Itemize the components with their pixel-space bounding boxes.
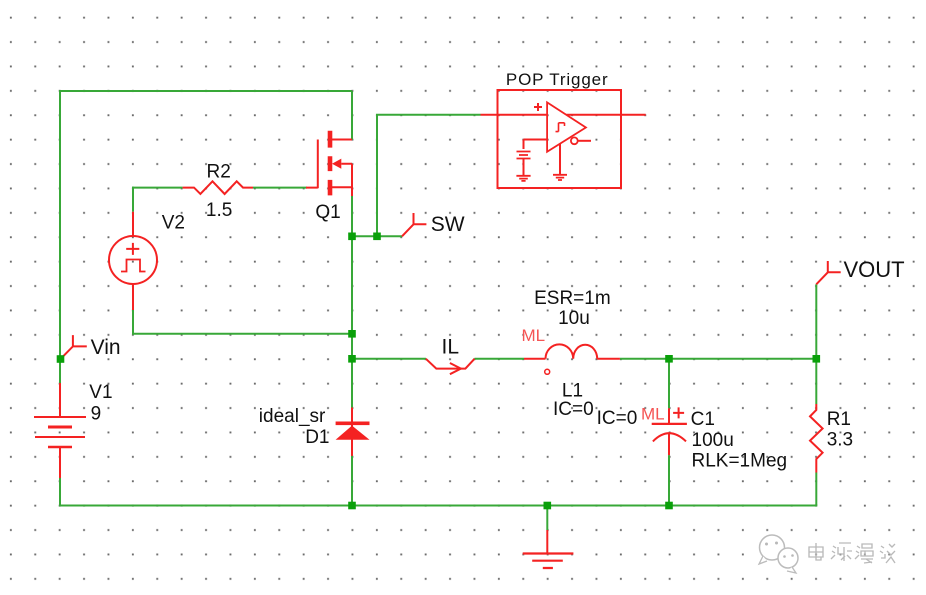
watermark logo bubbles: [760, 535, 785, 560]
wire IL row segment 3: [620, 358, 816, 360]
wire R1 column upper: [815, 284, 817, 404]
battery V1: [34, 383, 86, 478]
svg-text:9: 9: [91, 404, 102, 425]
svg-text:ESR=1m: ESR=1m: [534, 288, 611, 309]
node C1 bottom junction: [665, 502, 673, 510]
node C1 top junction: [665, 355, 673, 363]
wire left vertical upper: [59, 90, 61, 383]
node ground junction: [544, 502, 552, 510]
svg-text:POP Trigger: POP Trigger: [506, 70, 609, 89]
wire C1 column upper: [668, 359, 670, 409]
flag SW: [402, 213, 426, 236]
node SW junction left: [348, 233, 356, 241]
node VOUT junction: [813, 355, 821, 363]
current probe IL: [426, 359, 475, 374]
flag VOUT: [816, 261, 840, 284]
svg-text:3.3: 3.3: [827, 430, 853, 451]
wire Q1 source to bottom column: [351, 196, 353, 506]
resistor R1: [810, 404, 823, 473]
svg-text:Q1: Q1: [315, 202, 340, 223]
svg-text:L1: L1: [562, 380, 583, 401]
wire V2 to R2 left: [132, 187, 183, 189]
svg-text:10u: 10u: [558, 308, 590, 329]
svg-text:IC=0: IC=0: [553, 399, 594, 420]
transistor Q1: [306, 131, 352, 196]
diode D1: [336, 408, 370, 456]
node SW junction right: [373, 233, 381, 241]
svg-text:D1: D1: [305, 427, 329, 448]
svg-text:ML: ML: [522, 326, 546, 345]
wire ground stub: [546, 506, 548, 531]
svg-text:IC=0: IC=0: [597, 408, 638, 429]
wire POP feed horizontal: [376, 114, 481, 116]
flag Vin: [61, 335, 87, 359]
capacitor C1: [652, 407, 687, 455]
wire IL row segment 1: [352, 358, 426, 360]
wire top horizontal: [59, 90, 352, 92]
wire SW stub: [352, 235, 402, 237]
watermark text 电源漫谈 approximation: [809, 543, 895, 563]
svg-text:ideal_sr: ideal_sr: [259, 406, 326, 427]
wire R1 column lower: [815, 473, 817, 506]
wire V2 top vertical: [132, 187, 134, 212]
voltage source V2: [109, 212, 157, 310]
svg-text:VOUT: VOUT: [844, 257, 905, 282]
svg-text:IL: IL: [442, 336, 460, 359]
svg-text:SW: SW: [431, 213, 465, 236]
svg-text:RLK=1Meg: RLK=1Meg: [692, 450, 788, 471]
svg-text:Vin: Vin: [91, 336, 121, 359]
wire V2 return horizontal: [133, 333, 352, 335]
node IL branch junction: [348, 355, 356, 363]
svg-text:1.5: 1.5: [206, 200, 232, 221]
wire IL row segment 2: [475, 358, 525, 360]
svg-text:R1: R1: [827, 409, 851, 430]
resistor R2: [183, 181, 253, 194]
wire C1 column lower: [668, 455, 670, 505]
wire bottom horizontal: [59, 505, 817, 507]
POP Trigger block U1: [481, 90, 646, 188]
svg-text:100u: 100u: [692, 430, 734, 451]
ground: [523, 530, 574, 568]
svg-text:ML: ML: [641, 405, 665, 424]
wire Q1 drain stub: [351, 91, 353, 140]
svg-text:R2: R2: [207, 161, 231, 182]
svg-text:C1: C1: [691, 409, 715, 430]
node Vin junction: [57, 355, 65, 363]
wire V2 return vertical: [132, 310, 134, 335]
wire R2 to Q1 gate: [253, 187, 307, 189]
node D1 bottom junction: [348, 502, 356, 510]
svg-text:V2: V2: [162, 212, 185, 233]
wire POP feed vertical: [376, 115, 378, 237]
node V2 return junction: [348, 330, 356, 338]
wire left vertical lower: [59, 478, 61, 507]
inductor L1: [524, 344, 620, 374]
svg-text:V1: V1: [89, 382, 112, 403]
